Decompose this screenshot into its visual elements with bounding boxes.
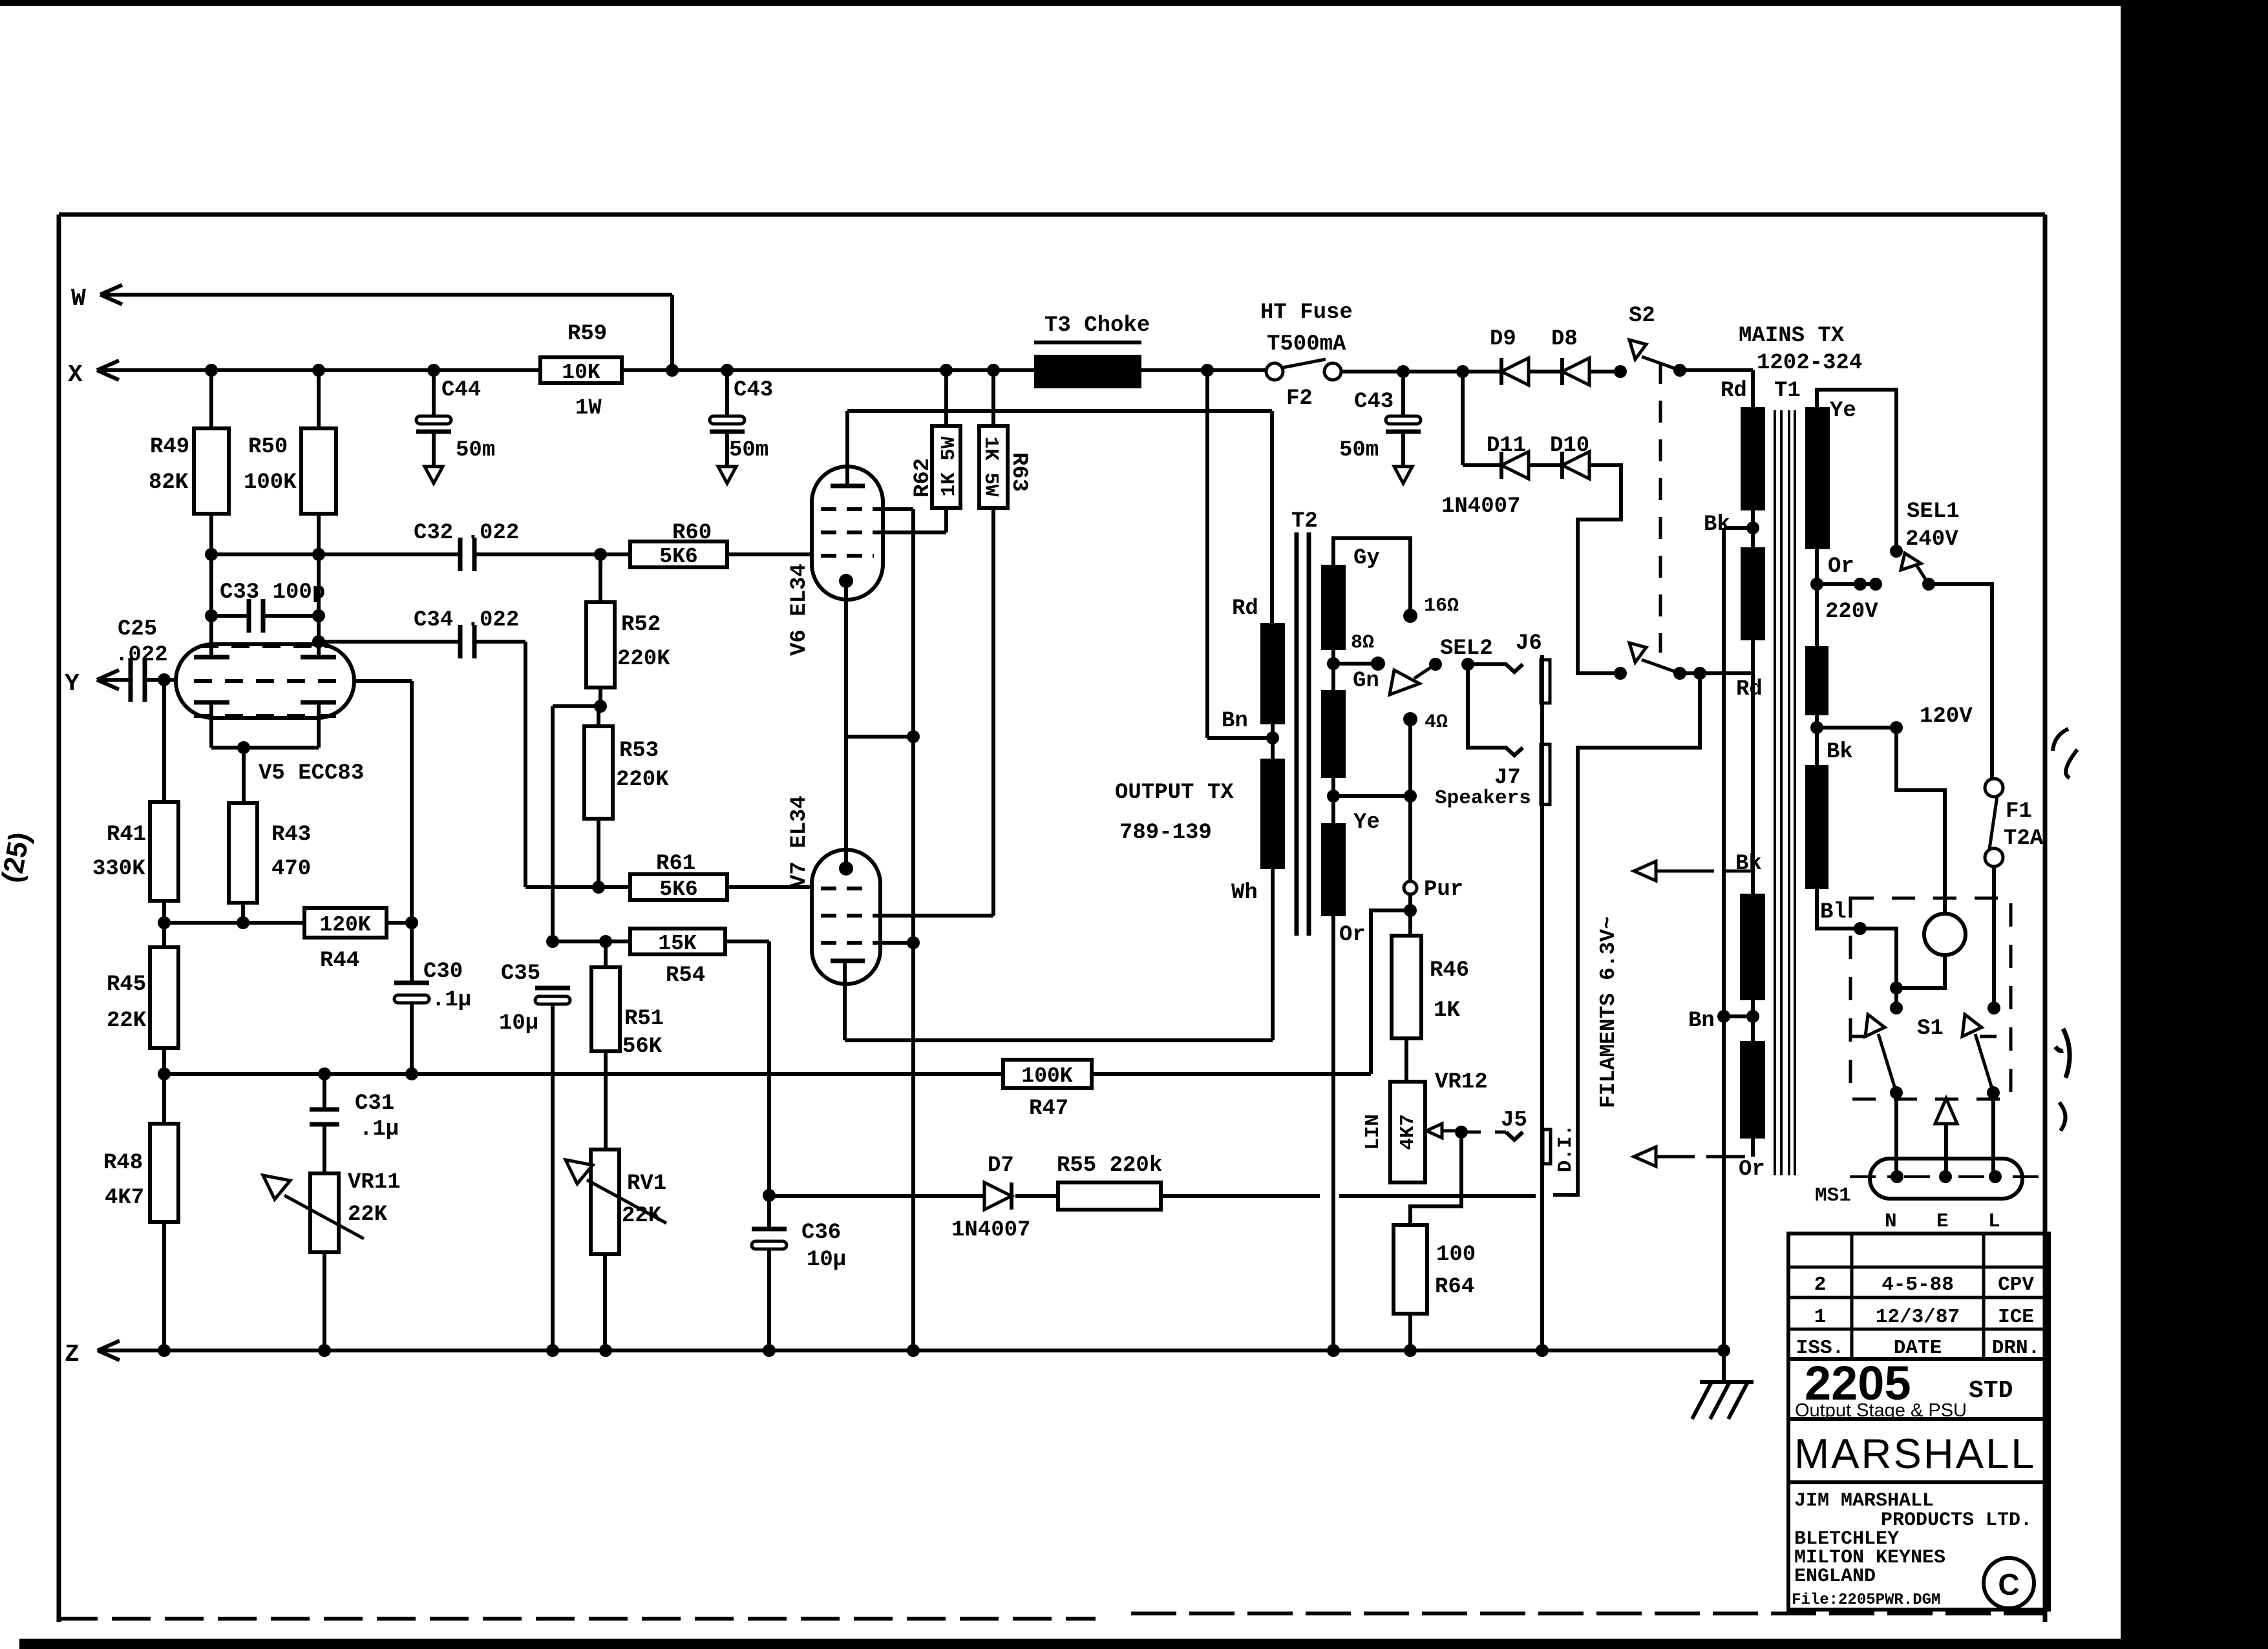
capacitor C31 <box>323 1074 326 1109</box>
svg-text:C36: C36 <box>801 1221 841 1245</box>
svg-text:Rd: Rd <box>1721 379 1747 403</box>
svg-text:R64: R64 <box>1435 1275 1474 1299</box>
svg-text:4-5-88: 4-5-88 <box>1881 1274 1954 1296</box>
svg-text:12/3/87: 12/3/87 <box>1876 1306 1960 1329</box>
svg-text:N: N <box>1885 1210 1897 1233</box>
svg-text:1202-324: 1202-324 <box>1757 351 1862 375</box>
svg-text:C43: C43 <box>1354 390 1394 414</box>
svg-text:4Ω: 4Ω <box>1425 711 1448 733</box>
T1 primary Bn tap <box>1751 1000 1755 1041</box>
svg-text:R55 220k: R55 220k <box>1057 1153 1162 1178</box>
svg-text:J6: J6 <box>1516 631 1542 656</box>
MARSHALL logo box <box>1788 1419 2049 1482</box>
wire cathode link to ground rail <box>846 735 913 739</box>
svg-text:Rd: Rd <box>1736 677 1763 702</box>
T1 secondary winding lower <box>1805 765 1828 889</box>
wire 120V tap to lamp <box>1896 728 1945 914</box>
svg-text:T2: T2 <box>1291 509 1318 534</box>
svg-text:789-139: 789-139 <box>1119 821 1212 845</box>
svg-text:Or: Or <box>1739 1157 1765 1182</box>
wire Pur to feedback bus <box>1371 910 1410 1074</box>
resistor R44 120K <box>164 921 304 925</box>
svg-text:HT Fuse: HT Fuse <box>1260 300 1353 325</box>
svg-text:VR12: VR12 <box>1435 1070 1488 1095</box>
svg-text:22K: 22K <box>107 1009 147 1033</box>
svg-text:D8: D8 <box>1551 327 1578 352</box>
svg-text:T3 Choke: T3 Choke <box>1044 313 1150 338</box>
T1 primary winding third <box>1740 894 1765 1000</box>
svg-text:F2: F2 <box>1286 386 1313 411</box>
svg-text:Bk: Bk <box>1827 740 1853 764</box>
resistor R52 <box>586 602 615 688</box>
V5 cathodes <box>194 700 229 705</box>
V5 anode plates <box>194 655 229 660</box>
wire R52-R53 junction <box>553 704 600 708</box>
svg-text:10K: 10K <box>562 361 600 384</box>
svg-text:56K: 56K <box>622 1035 662 1059</box>
pentode V7 EL34 <box>812 850 880 984</box>
resistor R43 <box>229 803 257 903</box>
V7 anode <box>831 959 865 963</box>
bottom black scan bar <box>19 1639 2268 1649</box>
resistor R49 <box>205 364 218 377</box>
wire V7 anode to T2 Wh <box>845 1038 1273 1042</box>
svg-text:MS1: MS1 <box>1815 1184 1851 1207</box>
svg-text:E: E <box>1936 1210 1949 1233</box>
svg-text:1K: 1K <box>1434 998 1460 1023</box>
svg-text:10µ: 10µ <box>499 1011 538 1036</box>
svg-text:C31: C31 <box>355 1091 394 1116</box>
svg-text:Wh: Wh <box>1231 881 1258 905</box>
title 2205 STD box <box>1788 1359 2049 1419</box>
svg-text:W: W <box>71 285 86 313</box>
svg-text:240V: 240V <box>1905 527 1958 552</box>
svg-text:MARSHALL: MARSHALL <box>1794 1430 2036 1477</box>
fuse F1 T2A <box>1985 779 2003 797</box>
svg-text:R44: R44 <box>320 949 359 973</box>
svg-text:Gn: Gn <box>1353 669 1379 693</box>
svg-text:C43: C43 <box>734 378 773 403</box>
S2 pole 2 <box>1629 643 1646 662</box>
svg-text:File:2205PWR.DGM: File:2205PWR.DGM <box>1792 1591 1940 1609</box>
svg-text:Ye: Ye <box>1353 810 1380 835</box>
svg-text:1N4007: 1N4007 <box>1441 494 1520 519</box>
svg-text:D9: D9 <box>1490 327 1516 352</box>
svg-text:F1: F1 <box>2006 799 2032 824</box>
feedback bus wire <box>164 1072 1003 1076</box>
svg-text:1K 5W: 1K 5W <box>938 436 960 496</box>
svg-text:R62: R62 <box>911 458 935 498</box>
svg-text:FILAMENTS 6.3V~: FILAMENTS 6.3V~ <box>1596 916 1620 1108</box>
svg-text:100K: 100K <box>1021 1064 1072 1088</box>
lamp indicator <box>1924 914 1966 955</box>
svg-text:.1µ: .1µ <box>432 988 471 1013</box>
resistor R51 <box>591 967 620 1051</box>
svg-text:Bk: Bk <box>1735 852 1762 876</box>
wire S2 pole1 to T1 Rd <box>1680 368 1753 372</box>
V6 cathode dot <box>839 574 853 588</box>
svg-text:4K7: 4K7 <box>105 1186 144 1210</box>
svg-text:Or: Or <box>1339 923 1366 947</box>
svg-text:4K7: 4K7 <box>1397 1114 1419 1150</box>
filament arrow upper <box>1634 861 1656 881</box>
svg-text:ENGLAND: ENGLAND <box>1794 1566 1876 1588</box>
capacitor C36 <box>763 1189 776 1202</box>
svg-text:R45: R45 <box>107 972 146 997</box>
capacitor C44 <box>427 364 440 377</box>
svg-text:LIN: LIN <box>1362 1114 1384 1150</box>
wire rectifier output jog to S2 pole 2 <box>1578 465 1621 673</box>
wire X rail left <box>97 368 540 372</box>
earth arrow <box>1935 1098 1957 1124</box>
T1 secondary winding 120V section <box>1805 646 1828 715</box>
svg-text:CPV: CPV <box>1998 1274 2034 1296</box>
svg-text:R46: R46 <box>1430 958 1469 983</box>
schematic border frame <box>59 213 2045 217</box>
wire Bk tap ground feed <box>1722 528 1726 1382</box>
svg-text:VR11: VR11 <box>348 1170 401 1195</box>
svg-text:STD: STD <box>1969 1377 2013 1405</box>
svg-text:Gy: Gy <box>1353 546 1380 571</box>
svg-text:R50: R50 <box>248 435 288 459</box>
svg-text:V6 EL34: V6 EL34 <box>787 563 812 656</box>
resistor R54 <box>630 929 725 954</box>
svg-text:50m: 50m <box>456 438 495 463</box>
wire R60 to V6 grid <box>727 552 812 556</box>
svg-text:Z: Z <box>65 1341 79 1369</box>
svg-text:R53: R53 <box>619 739 659 763</box>
wire grid ground rail <box>911 509 915 1350</box>
svg-text:470: 470 <box>271 857 311 881</box>
capacitor C43 (left 50m) <box>721 364 734 377</box>
svg-text:5K6: 5K6 <box>659 877 697 901</box>
svg-text:T2A: T2A <box>2004 826 2044 851</box>
svg-text:R54: R54 <box>666 963 705 988</box>
svg-text:120K: 120K <box>319 913 370 937</box>
V7 grid dashes <box>821 887 873 890</box>
svg-text:R63: R63 <box>1006 452 1031 492</box>
wire W rail <box>100 293 672 297</box>
copyright C circle <box>1984 1558 2034 1608</box>
address box <box>1788 1482 2049 1610</box>
T2 primary Wh winding <box>1260 759 1285 869</box>
handwritten tick right margin <box>2055 1029 2070 1078</box>
svg-text:S2: S2 <box>1629 304 1655 328</box>
svg-text:2: 2 <box>1814 1274 1827 1296</box>
svg-text:.022: .022 <box>115 643 168 667</box>
switch S1 dashed enclosure <box>1850 898 2011 1099</box>
svg-text:1K 5W: 1K 5W <box>979 436 1002 496</box>
svg-text:Speakers: Speakers <box>1435 787 1531 810</box>
triode V5 ECC83 <box>176 644 354 718</box>
resistor R50 <box>312 364 325 377</box>
resistor R47 100K <box>1003 1060 1092 1088</box>
svg-text:R41: R41 <box>107 823 146 847</box>
wire R61 to V7 grid <box>727 885 812 889</box>
wire Z ground bus <box>98 1349 1724 1352</box>
resistor R48 <box>150 1124 178 1222</box>
svg-text:100: 100 <box>1436 1243 1476 1267</box>
svg-text:C32 .022: C32 .022 <box>414 521 519 545</box>
svg-text:Pur: Pur <box>1424 877 1463 902</box>
svg-text:C: C <box>1998 1568 2019 1601</box>
svg-text:Rd: Rd <box>1232 596 1258 621</box>
svg-text:J5: J5 <box>1501 1108 1527 1133</box>
svg-text:C44: C44 <box>441 378 481 403</box>
right black scan margin <box>2121 0 2268 1649</box>
T1 primary Rd winding upper <box>1741 407 1765 510</box>
svg-text:R47: R47 <box>1029 1097 1068 1121</box>
svg-text:R43: R43 <box>271 823 311 847</box>
wire V6 anode to T2 <box>847 409 1272 413</box>
svg-text:.1µ: .1µ <box>359 1117 399 1142</box>
VR12 wiper <box>1426 1124 1442 1138</box>
svg-text:Or: Or <box>1828 554 1854 579</box>
resistor R63 1K 5W <box>987 364 1000 377</box>
svg-text:ICE: ICE <box>1998 1306 2034 1329</box>
svg-text:C25: C25 <box>118 617 157 642</box>
svg-text:L: L <box>1988 1210 2000 1233</box>
resistor R53 <box>584 726 613 819</box>
wire 8 ohm tap <box>1331 650 1335 690</box>
T1 core <box>1774 410 1776 1175</box>
wire VR12 wiper to R64 <box>1410 1132 1461 1225</box>
svg-text:220K: 220K <box>616 768 669 792</box>
title block revision table <box>1788 1234 2049 1359</box>
svg-text:100K: 100K <box>244 470 297 495</box>
svg-text:50m: 50m <box>729 438 768 463</box>
svg-text:SEL2: SEL2 <box>1440 636 1493 661</box>
wire 16 ohm tap <box>1333 538 1410 616</box>
wire C34 down to R61 <box>524 642 527 887</box>
svg-text:220K: 220K <box>617 647 670 671</box>
top black scan bar <box>0 0 2268 6</box>
svg-text:C33 100p: C33 100p <box>220 580 325 605</box>
svg-text:C34 .022: C34 .022 <box>414 608 519 633</box>
svg-text:8Ω: 8Ω <box>1351 632 1374 654</box>
svg-text:Y: Y <box>65 670 79 698</box>
wire X rail mid <box>622 368 1267 372</box>
svg-text:82K: 82K <box>149 470 189 495</box>
V5 grid dashed <box>194 679 336 683</box>
svg-text:S1: S1 <box>1917 1016 1944 1041</box>
svg-text:MAINS TX: MAINS TX <box>1739 324 1845 348</box>
svg-text:D7: D7 <box>988 1153 1014 1178</box>
svg-text:RV1: RV1 <box>627 1171 666 1196</box>
svg-text:Bn: Bn <box>1222 709 1248 733</box>
pentode V6 EL34 <box>812 467 883 600</box>
svg-text:R59: R59 <box>567 322 607 346</box>
svg-text:OUTPUT TX: OUTPUT TX <box>1115 781 1234 805</box>
svg-text:1: 1 <box>1814 1306 1827 1329</box>
svg-text:R49: R49 <box>150 435 189 459</box>
svg-text:330K: 330K <box>92 857 145 881</box>
resistor R41 <box>162 680 166 802</box>
V6 grid dashes <box>821 507 874 511</box>
wire HT feed to T2 centre tap <box>1205 370 1209 738</box>
filament arrow lower <box>1634 1147 1656 1166</box>
svg-text:C35: C35 <box>501 961 540 986</box>
chassis ground symbol <box>1700 1380 1754 1384</box>
svg-text:10µ: 10µ <box>807 1248 846 1272</box>
svg-text:T500mA: T500mA <box>1267 332 1346 357</box>
wire V5 grid to C30 column <box>354 679 412 683</box>
svg-text:R52: R52 <box>621 613 661 637</box>
svg-text:R48: R48 <box>103 1151 143 1175</box>
wire S2 pole2 to DI jack <box>1553 673 1700 1195</box>
potentiometer VR11 <box>323 1124 326 1173</box>
potentiometer RV1 <box>591 1150 619 1254</box>
T1 primary winding fourth <box>1740 1041 1765 1139</box>
svg-text:T1: T1 <box>1774 379 1801 403</box>
svg-text:D.I.: D.I. <box>1554 1124 1577 1172</box>
wire S2 pole2 to T1 primary tap <box>1680 671 1753 675</box>
svg-text:PRODUCTS LTD.: PRODUCTS LTD. <box>1881 1509 2032 1531</box>
selector SEL1 blade <box>1901 553 1921 570</box>
svg-text:16Ω: 16Ω <box>1424 595 1459 617</box>
wire 4 ohm tap <box>1331 778 1335 823</box>
svg-text:R51: R51 <box>624 1007 664 1031</box>
potentiometer VR12 4K7 LIN <box>1390 1082 1425 1182</box>
svg-text:JIM MARSHALL: JIM MARSHALL <box>1794 1490 1934 1512</box>
wire X rail right of choke <box>1141 368 1267 372</box>
svg-text:C30: C30 <box>423 960 463 984</box>
T1 primary Or return <box>1751 1139 1755 1157</box>
svg-text:X: X <box>68 361 83 389</box>
svg-text:DRN.: DRN. <box>1992 1337 2040 1360</box>
resistor R62 1K 5W <box>940 364 953 377</box>
svg-text:V5 ECC83: V5 ECC83 <box>259 761 364 786</box>
svg-text:1W: 1W <box>575 396 602 421</box>
resistor R64 <box>1394 1225 1427 1314</box>
svg-text:1N4007: 1N4007 <box>951 1218 1030 1243</box>
svg-text:Ye: Ye <box>1830 399 1856 423</box>
svg-text:22K: 22K <box>348 1203 388 1227</box>
wire R54 right to C36 column <box>725 940 769 943</box>
svg-text:Bn: Bn <box>1688 1009 1715 1033</box>
S2 gang dashed link <box>1659 362 1662 653</box>
svg-text:Bl: Bl <box>1820 900 1847 925</box>
resistor R46 <box>1392 936 1421 1038</box>
svg-text:V7 EL34: V7 EL34 <box>787 795 812 888</box>
wire 240V tap <box>1817 390 1896 551</box>
V6 anode <box>831 484 865 488</box>
V7 cathode dot <box>839 861 853 876</box>
resistor R45 <box>150 947 178 1048</box>
terminal Pur <box>1404 881 1417 894</box>
svg-text:Bk: Bk <box>1704 512 1730 537</box>
svg-text:15K: 15K <box>658 932 697 956</box>
svg-text:120V: 120V <box>1920 704 1973 729</box>
svg-text:50m: 50m <box>1339 438 1379 463</box>
T1 primary winding second <box>1741 547 1765 640</box>
svg-text:5K6: 5K6 <box>659 545 697 569</box>
svg-text:SEL1: SEL1 <box>1907 499 1960 524</box>
svg-text:220V: 220V <box>1825 600 1878 624</box>
